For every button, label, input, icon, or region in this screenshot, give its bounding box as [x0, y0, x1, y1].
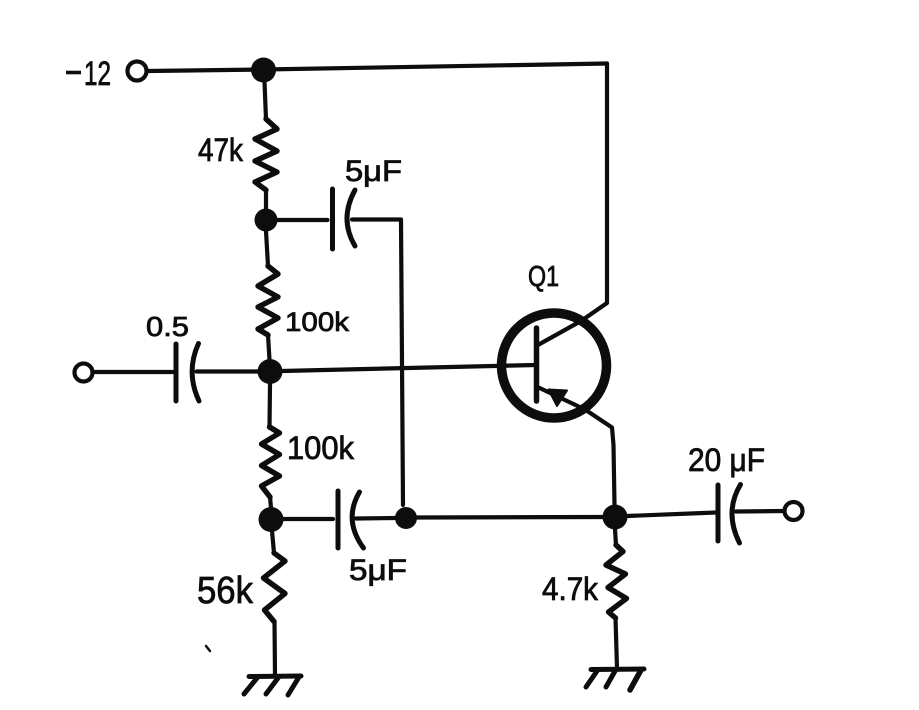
label -12 minus dash	[66, 71, 81, 75]
resistor R4 56k	[264, 553, 286, 622]
wire 56k to ground	[272, 622, 277, 676]
node D junction dot	[259, 507, 284, 532]
wire input terminal to capacitor C2	[93, 370, 173, 374]
wire node F down to 4.7k	[615, 529, 616, 545]
capacitor C2 0.5 left plate	[174, 344, 179, 401]
svg-text:100k: 100k	[287, 430, 355, 466]
svg-text:Q1: Q1	[528, 261, 559, 293]
stray mark	[206, 646, 210, 651]
wire node F to capacitor C4	[627, 513, 716, 517]
wire C1 to corner and down to node D	[352, 220, 403, 506]
svg-text:100k: 100k	[285, 307, 350, 337]
wire C4 to output terminal	[736, 509, 784, 514]
capacitor C1 5uF left plate	[330, 189, 335, 249]
capacitor C3 5uF left plate	[336, 491, 341, 548]
wire node C down to 100k lower	[267, 384, 272, 427]
wire top rail from -12 terminal to node A	[148, 70, 264, 72]
capacitor C4 20uF right curved plate	[732, 485, 741, 544]
wire node E to node F	[417, 515, 603, 520]
wire node D down to 56k	[272, 531, 274, 553]
wire C2 to node C	[197, 369, 259, 373]
svg-text:47k: 47k	[198, 132, 244, 168]
resistor R3 100k lower	[262, 427, 280, 497]
svg-text:20 μF: 20 μF	[688, 442, 765, 478]
capacitor C2 0.5 right curved plate	[192, 344, 199, 402]
wire C3 to node E	[356, 516, 395, 521]
wire node C to transistor base	[282, 365, 536, 371]
node A junction dot	[251, 58, 276, 83]
node F junction dot	[603, 505, 628, 530]
svg-text:12: 12	[84, 55, 111, 93]
capacitor C1 5uF right curved plate	[347, 190, 355, 246]
terminal input (open circle)	[75, 364, 93, 382]
node C junction dot	[258, 359, 283, 384]
svg-text:5μF: 5μF	[345, 155, 402, 188]
ground G2	[586, 669, 644, 690]
svg-text:5μF: 5μF	[349, 554, 407, 587]
wire 4.7k to ground	[616, 618, 618, 668]
svg-text:56k: 56k	[197, 570, 254, 612]
resistor R1 47k	[255, 119, 277, 190]
ground G1	[244, 676, 301, 695]
resistor R2 100k upper	[258, 266, 278, 335]
terminal output (open circle)	[785, 502, 803, 520]
wire node A down to 47k	[265, 82, 267, 119]
wire 100k lower to node D	[270, 497, 271, 508]
wire 47k to node B	[264, 190, 268, 209]
wire 100k to node C	[268, 335, 270, 360]
transistor Q1 base bar	[534, 328, 540, 401]
wire right vertical drop to collector	[537, 64, 607, 346]
wire node B to capacitor C1	[277, 218, 328, 222]
wire node B down to 100k	[266, 231, 268, 266]
transistor Q1 emitter arrow (PNP)	[549, 390, 568, 407]
node E junction dot	[395, 507, 417, 529]
transistor Q1 circle	[502, 313, 607, 418]
node B junction dot	[255, 209, 278, 232]
resistor R5 4.7k	[606, 545, 627, 618]
transistor Q1 emitter wire	[537, 387, 615, 506]
terminal -12 input (open circle)	[128, 62, 147, 81]
svg-text:4.7k: 4.7k	[542, 571, 599, 607]
capacitor C4 20uF left plate	[716, 485, 721, 541]
wire node D to capacitor C3	[283, 517, 333, 521]
wire top rail node A to top-right corner	[263, 64, 607, 70]
svg-text:0.5: 0.5	[146, 311, 189, 342]
capacitor C3 5uF right curved plate	[352, 492, 363, 548]
